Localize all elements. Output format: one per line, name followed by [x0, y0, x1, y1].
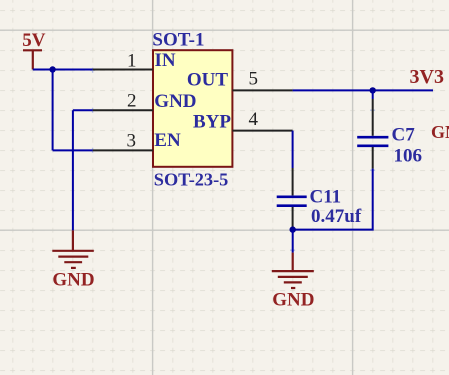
- major grid line horizontal y=30.2: [0, 29, 449, 31]
- svg-text:IN: IN: [155, 50, 176, 71]
- svg-text:2: 2: [127, 90, 137, 111]
- svg-text:GND: GND: [431, 122, 449, 142]
- svg-text:OUT: OUT: [187, 69, 229, 90]
- capacitor C7 bottom pin: [372, 147, 374, 169]
- capacitor C7 plates: [357, 137, 388, 146]
- pin 5 OUT stub: [232, 89, 292, 91]
- wire to pin3 EN: [53, 149, 93, 151]
- svg-text:C11: C11: [310, 186, 342, 207]
- ground symbol left: [52, 230, 94, 268]
- junction at OUT net: [370, 87, 376, 93]
- major grid line horizontal y=230.2: [0, 229, 449, 231]
- wire junction down to C7: [372, 90, 374, 99]
- junction at 5V node: [49, 66, 55, 72]
- capacitor C7 top pin: [372, 99, 374, 136]
- capacitor C11 bottom pin: [292, 207, 294, 230]
- svg-text:3: 3: [127, 130, 137, 151]
- svg-text:106: 106: [394, 146, 423, 167]
- svg-text:3V3: 3V3: [410, 66, 444, 88]
- svg-text:EN: EN: [154, 130, 181, 151]
- svg-text:C7: C7: [392, 125, 416, 146]
- connection-point grid crosses (pale blue): [90, 68, 375, 253]
- svg-text:0.47uf: 0.47uf: [311, 206, 362, 227]
- major grid line vertical x=352.6: [352, 0, 354, 375]
- svg-text:4: 4: [248, 109, 258, 130]
- svg-text:1: 1: [127, 50, 137, 71]
- capacitor C11 top pin: [292, 168, 294, 195]
- wire junction down to EN row: [52, 70, 54, 151]
- wire 5V to pin1: [33, 69, 93, 71]
- svg-text:5: 5: [248, 68, 258, 89]
- svg-text:GND: GND: [154, 91, 196, 112]
- wire junction down to bottom GND: [292, 230, 294, 253]
- pin 1 IN stub: [93, 69, 153, 71]
- wire C7 bottom to ground net: [293, 169, 373, 230]
- pin 3 EN stub: [93, 149, 153, 151]
- op-amp U1 body SOT-23-5 regulator: [153, 50, 232, 167]
- power port 5V stem: [32, 50, 34, 69]
- wire pin2 GND to left: [73, 109, 93, 111]
- capacitor C11 plates: [277, 197, 307, 206]
- pin 2 GND stub: [93, 109, 153, 111]
- svg-text:SOT-1: SOT-1: [152, 30, 204, 51]
- pin 4 BYP stub: [232, 130, 292, 132]
- svg-text:BYP: BYP: [193, 112, 231, 133]
- svg-text:SOT-23-5: SOT-23-5: [154, 170, 229, 190]
- svg-text:5V: 5V: [22, 30, 46, 51]
- ground symbol bottom: [272, 253, 314, 288]
- wire OUT to 3V3: [293, 89, 433, 91]
- power port 5V bar: [23, 49, 42, 51]
- wire pin4 down to C11: [292, 131, 294, 168]
- major grid line vertical x=152.6: [152, 0, 154, 375]
- svg-text:GND: GND: [272, 290, 314, 311]
- wire down to left GND symbol: [72, 110, 74, 230]
- junction at ground net: [290, 226, 296, 232]
- svg-text:GND: GND: [52, 270, 94, 291]
